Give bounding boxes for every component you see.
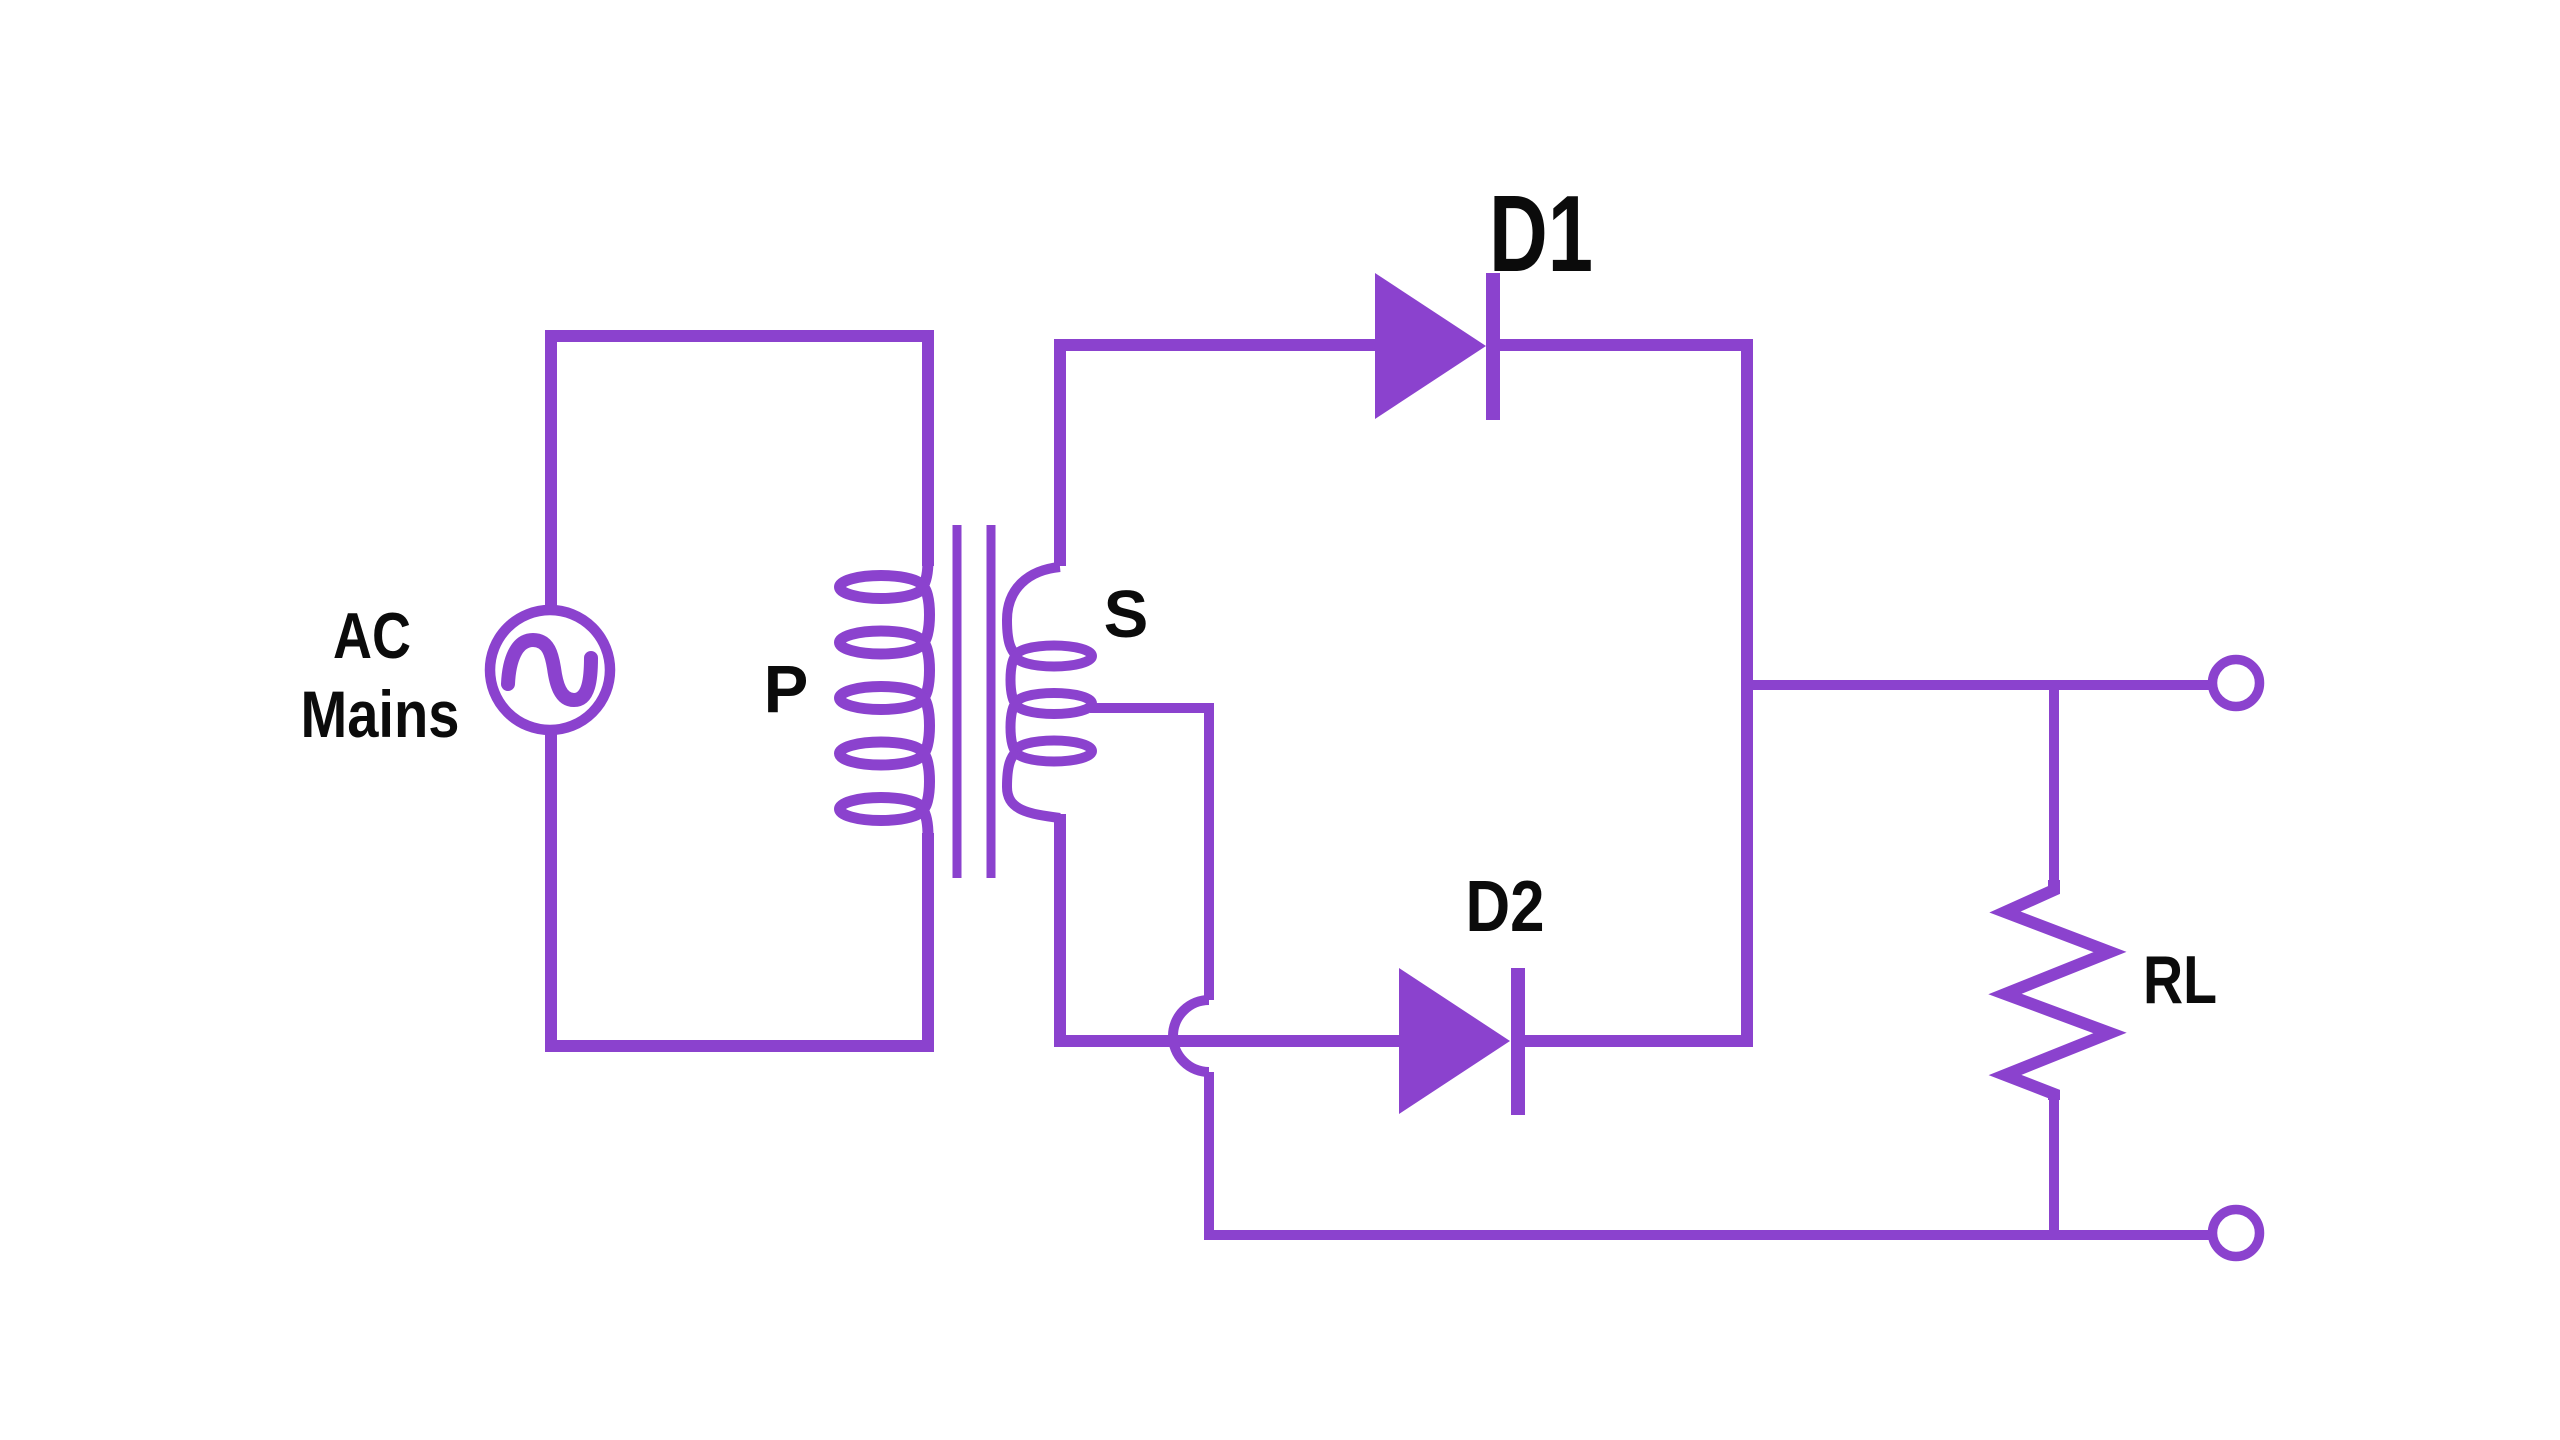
- output terminal bottom: [2213, 1210, 2260, 1257]
- wire RL bottom lead: [2049, 1092, 2059, 1240]
- wire primary left vertical lower: [545, 730, 557, 1052]
- wire center tap vertical upper: [1204, 703, 1214, 1000]
- wire secondary top vertical: [1054, 339, 1066, 566]
- svg-text:AC: AC: [333, 599, 411, 672]
- svg-text:D2: D2: [1466, 867, 1545, 947]
- wire secondary bottom horizontal to D2: [1054, 1035, 1401, 1047]
- wire bottom horizontal to bottom terminal: [1204, 1230, 2210, 1240]
- transformer core line right: [987, 525, 996, 878]
- wire primary bottom horizontal: [545, 1040, 934, 1052]
- wire output node to top terminal: [1747, 680, 2210, 690]
- wire center tap vertical lower: [1204, 1072, 1214, 1240]
- wire primary right vertical upper: [922, 330, 934, 566]
- svg-text:RL: RL: [2143, 942, 2217, 1018]
- AC source sine wave: [508, 640, 591, 700]
- wire primary left vertical: [545, 330, 557, 610]
- secondary winding S coil: [1007, 567, 1092, 818]
- transformer core line left: [953, 525, 962, 878]
- wire D2 cathode to right vertical: [1523, 1035, 1752, 1047]
- wire primary right vertical lower: [922, 833, 934, 1052]
- diode D2 cathode bar: [1511, 968, 1525, 1115]
- output terminal top: [2213, 660, 2260, 707]
- svg-text:S: S: [1104, 577, 1149, 652]
- primary winding P coil: [840, 560, 930, 836]
- load resistor RL zigzag: [2005, 880, 2110, 1100]
- wire secondary top horizontal to D1: [1054, 339, 1377, 351]
- svg-text:D1: D1: [1489, 173, 1593, 295]
- AC source circle: [490, 610, 610, 730]
- wire RL top lead: [2049, 680, 2059, 892]
- svg-text:P: P: [764, 652, 809, 727]
- wire hop over secondary wire: [1173, 1000, 1209, 1072]
- svg-text:Mains: Mains: [301, 677, 460, 751]
- wire secondary bottom vertical: [1054, 814, 1066, 1047]
- wire center tap horizontal: [1090, 703, 1214, 713]
- diode D2 triangle: [1399, 968, 1510, 1114]
- wire primary top horizontal: [545, 330, 934, 342]
- wire D1 cathode to right corner: [1498, 339, 1752, 351]
- diode D1 triangle: [1375, 273, 1486, 419]
- diode D1 cathode bar: [1486, 273, 1500, 420]
- wire right vertical D1 to D2: [1741, 339, 1753, 1047]
